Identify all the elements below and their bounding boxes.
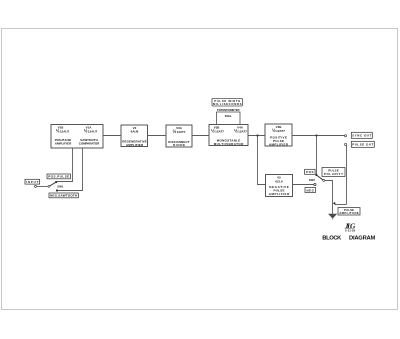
- wire block1 bottom right to sawtooth line: [58, 148, 83, 191]
- contact NEG (open circle): [314, 183, 316, 185]
- wire block1 to block2: [103, 135, 121, 137]
- svg-text:MILLISECONDS: MILLISECONDS: [213, 102, 242, 106]
- svg-text:POS.PULSE: POS.PULSE: [48, 175, 69, 179]
- label SYNC OUT: [351, 132, 372, 138]
- svg-text:AMPLIFIER: AMPLIFIER: [55, 142, 72, 146]
- label PULSE AMPLITUDE: [338, 208, 360, 216]
- svg-text:5-11-55: 5-11-55: [345, 229, 356, 233]
- terminal pulse out: [345, 143, 347, 145]
- terminal input jack: [35, 185, 37, 187]
- svg-text:SW3: SW3: [309, 178, 316, 182]
- block V1 pos-pulse amplifier / sawtooth comparator: [51, 125, 103, 149]
- svg-text:PULSE OUT: PULSE OUT: [352, 143, 373, 147]
- block V4B positive pulse amplifier: [265, 124, 292, 146]
- junction A: [256, 134, 258, 136]
- svg-text:POS: POS: [306, 170, 314, 174]
- svg-text:POLARITY: POLARITY: [324, 172, 343, 176]
- wire block4 to block5: [248, 135, 265, 137]
- label INPUT: [25, 179, 40, 184]
- svg-text:MULTIVIBRATOR: MULTIVIBRATOR: [214, 142, 244, 146]
- contact POS (dot): [315, 174, 317, 176]
- svg-text:COMPARATOR: COMPARATOR: [79, 142, 100, 146]
- svg-text:INPUT: INPUT: [26, 180, 39, 184]
- wire block5 to sync out: [292, 135, 345, 137]
- switch SW3 arm: [309, 175, 325, 182]
- svg-text:POTENTIOMETER: POTENTIOMETER: [217, 108, 239, 112]
- svg-text:SW1: SW1: [57, 184, 64, 188]
- wire SW3 pole to potentiometer: [325, 181, 333, 214]
- wire block2 to block3: [148, 135, 167, 137]
- signature JLG 5-11-55: [344, 222, 356, 233]
- svg-text:DIAGRAM: DIAGRAM: [349, 235, 376, 241]
- svg-text:AMPLITUDE: AMPLITUDE: [339, 211, 359, 215]
- svg-text:AMPLIFIER: AMPLIFIER: [126, 143, 144, 147]
- title BLOCK DIAGRAM: [322, 235, 375, 241]
- block V5 negative pulse amplifier: [266, 175, 293, 197]
- dial bracket: [217, 108, 241, 124]
- potentiometer wiper pulse amplitude: [333, 146, 347, 206]
- wire junction A to block V5 input: [258, 136, 266, 185]
- label PULSE WIDTH MILLISECONDS: [212, 98, 243, 106]
- switch SW1 arm: [48, 182, 64, 188]
- wire input terminal to SW1 pole: [37, 186, 48, 188]
- label PULSE POLARITY: [322, 168, 345, 177]
- label NEG.SAWTOOTH: [49, 193, 78, 198]
- svg-text:AMPLIFIER: AMPLIFIER: [269, 142, 289, 146]
- label POS.PULSE: [47, 174, 70, 179]
- svg-text:6CL6: 6CL6: [275, 179, 283, 183]
- wire block1 bottom left to SW1 upper contact: [57, 148, 73, 182]
- label PULSE OUT: [351, 141, 374, 147]
- terminal sync out: [345, 135, 347, 137]
- wire block6 output to NEG contact: [293, 184, 314, 186]
- svg-text:6AU6: 6AU6: [131, 130, 139, 134]
- block V2 regenerative amplifier: [121, 125, 148, 147]
- label POS: [305, 169, 316, 174]
- contact SW1 lower (dot): [56, 189, 58, 191]
- svg-text:NEG: NEG: [306, 188, 314, 192]
- block V3B V4A monostable multivibrator: [209, 125, 248, 147]
- wire block3 to block4: [192, 135, 209, 137]
- svg-text:BLOCK: BLOCK: [322, 235, 342, 241]
- svg-text:SYNC OUT: SYNC OUT: [352, 134, 371, 138]
- label NEG: [305, 188, 316, 193]
- ground: [328, 214, 337, 220]
- contact SW1 upper (dot): [55, 181, 57, 183]
- wire junction B down to POS contact: [316, 136, 318, 175]
- svg-text:DIODE: DIODE: [173, 143, 185, 147]
- svg-text:AMPLIFIER: AMPLIFIER: [269, 192, 290, 196]
- svg-text:DIAL: DIAL: [225, 114, 232, 118]
- junction B: [315, 134, 317, 136]
- block V3A disconnect diode: [166, 125, 192, 147]
- svg-text:NEG.SAWTOOTH: NEG.SAWTOOTH: [50, 194, 77, 198]
